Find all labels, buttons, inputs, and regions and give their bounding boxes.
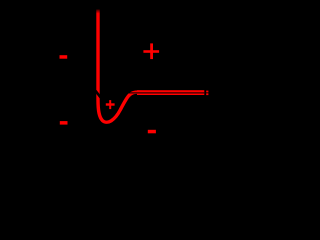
small plus in dip [106,103,115,105]
black x-axis stripe over the red tail [128,92,204,93]
plus sign upper-right [143,50,159,53]
minus sign lower-right [148,130,156,134]
horizontal asymptote tail (red) [137,90,204,95]
curve f (red): vertical asymptote branch, dip, rise [98,10,142,123]
fade at top of vertical branch [95,8,102,14]
red remnants right of arrowhead [206,91,208,93]
black diagonal crossing over vertical red branch [95,91,100,98]
minus sign upper-left [60,55,68,59]
minus sign lower-left [60,121,68,125]
